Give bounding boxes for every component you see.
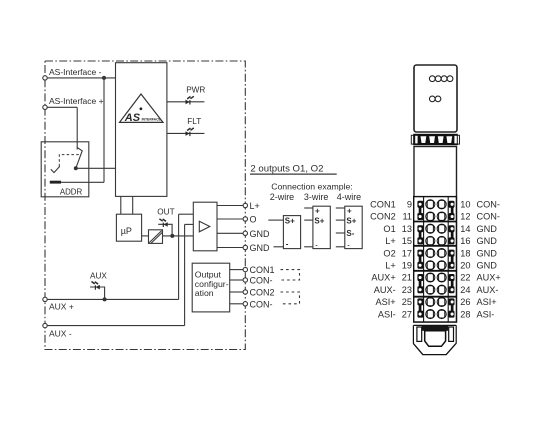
terminal row 27/28 [417,310,454,319]
wire AUX+ horizontal [45,298,179,300]
svg-text:16: 16 [460,236,470,246]
wire switch to AS-i chip [76,167,116,169]
svg-text:ASI+: ASI+ [477,297,497,307]
sensor box 3-wire [313,206,330,248]
wire OUT led tap [158,224,172,236]
svg-text:ation: ation [195,288,214,298]
svg-text:AUX -: AUX - [49,329,72,339]
LED OUT [159,218,168,227]
isolator box (diagonal) [149,230,163,244]
wire ADDR jumper to junction (horizontal) [61,181,105,183]
svg-text:AUX+: AUX+ [477,273,501,283]
wire AUX- vertical [184,224,186,325]
wire isolator to driver [163,235,194,237]
terminal CON2 [243,290,247,294]
svg-text:18: 18 [460,248,470,258]
LED row 4 [429,76,435,82]
svg-text:ADDR: ADDR [60,187,83,196]
svg-text:22: 22 [460,273,470,283]
svg-text:CON-: CON- [477,212,500,222]
node AUX led junction [103,297,107,301]
terminal GND 1 [243,231,247,235]
pin labels left column [370,200,412,320]
wire PWR [167,101,205,103]
svg-text:21: 21 [402,273,412,283]
svg-text:27: 27 [402,309,412,319]
wire driver O [217,218,243,220]
terminal CON- b [243,302,247,306]
svg-text:Connection example:: Connection example: [271,182,353,192]
wire config CON- a [230,279,243,281]
svg-text:11: 11 [402,212,412,222]
svg-text:PWR: PWR [186,85,205,94]
wire 4-wire S+ stub [336,219,345,221]
foot left tab [417,327,422,341]
svg-text:O: O [250,215,257,225]
foot rail clip cavity [425,331,446,347]
svg-text:AUX+: AUX+ [371,273,395,283]
svg-text:17: 17 [402,248,412,258]
svg-text:15: 15 [402,236,412,246]
terminal row 11/12 [417,212,454,221]
svg-text:-: - [315,242,317,249]
terminal AUX + [43,297,47,301]
wire chip to uP right [132,196,134,214]
svg-text:2 outputs O1, O2: 2 outputs O1, O2 [250,164,323,175]
node OUT junction [170,234,174,238]
AS-Interface logo triangle [120,94,164,122]
wire config CON- b [230,303,243,305]
svg-text:19: 19 [402,261,412,271]
foot outer silhouette [413,344,456,355]
svg-text:GND: GND [250,243,271,253]
wire AUX+ vertical [178,214,180,299]
svg-text:AUX: AUX [90,271,107,280]
terminal O [243,217,247,221]
svg-text:ASI-: ASI- [378,309,396,319]
svg-text:CON2: CON2 [250,288,275,298]
connector band body [413,134,458,145]
terminal row 17/18 [417,249,454,258]
terminal AS-Interface + [43,105,47,109]
svg-text:23: 23 [402,285,412,295]
wire AS-Interface + horizontal [45,106,77,108]
svg-text:AS-Interface -: AS-Interface - [49,67,102,77]
LED FLT [186,127,195,136]
terminal tab links [419,208,422,214]
ADDR jumper bar [50,181,61,184]
dashed load CON1 [281,270,300,280]
group dividers [414,221,457,223]
pin labels right column [460,200,500,320]
sensor box 4-wire [345,206,362,248]
dashed load CON2 [281,292,300,304]
svg-text:L+: L+ [385,261,395,271]
svg-text:20: 20 [460,261,470,271]
wire 4-wire S- stub [336,232,345,234]
terminal L+ [243,203,247,207]
wire O to 2-wire box [268,219,283,221]
terminal row 13/14 [417,224,454,233]
svg-text:S+: S+ [314,217,324,226]
wire chip to uP left [120,196,122,214]
driver triangle [199,221,210,232]
svg-text:ASI-: ASI- [477,309,495,319]
svg-text:S+: S+ [285,216,295,225]
wire AUX led tap [90,287,105,299]
ADDR box [41,142,89,197]
svg-text:FLT: FLT [187,117,201,126]
LED PWR [186,96,195,105]
output driver box [193,202,217,251]
svg-text:OUT: OUT [157,207,174,216]
output configuration box [192,263,230,312]
wire 4-wire minus stub [336,246,345,248]
svg-text:GND: GND [477,224,498,234]
LED AUX [91,281,100,290]
svg-text:CON-: CON- [477,200,500,210]
wire AUX+ stub to driver [179,213,194,215]
svg-text:CON1: CON1 [250,265,275,275]
wire 4-wire plus stub [336,207,345,209]
svg-text:CON2: CON2 [370,212,396,222]
svg-text:AS-Interface +: AS-Interface + [49,96,104,106]
svg-text:3-wire: 3-wire [304,192,329,202]
wire config CON2 [230,291,243,293]
svg-text:O1: O1 [383,224,395,234]
svg-text:14: 14 [460,224,470,234]
svg-text:+: + [315,206,320,215]
svg-text:GND: GND [477,236,498,246]
svg-text:S-: S- [346,229,354,238]
svg-text:-: - [286,239,289,248]
wire driver GND 2 [217,247,243,249]
terminal row 15/16 [417,236,454,245]
svg-text:26: 26 [460,297,470,307]
svg-text:-: - [347,242,349,249]
foot outer sides [412,325,414,343]
sensor box 2-wire [283,216,300,249]
svg-text:10: 10 [460,200,470,210]
terminal row 25/26 [417,297,454,306]
svg-text:µP: µP [121,226,132,236]
svg-text:+: + [347,206,352,215]
svg-text:13: 13 [402,224,412,234]
svg-text:GND: GND [477,261,498,271]
switch arm [76,148,82,169]
wire FLT [167,132,205,134]
svg-text:4-wire: 4-wire [337,192,362,202]
svg-text:24: 24 [460,285,470,295]
module boundary (dash-dot box) [45,61,245,350]
svg-text:CON-: CON- [250,276,273,286]
wire 3-wire S+ stub [304,219,313,221]
terminal row 19/20 [417,261,454,270]
AS-i chip box U1 [116,63,167,197]
terminal block frame [414,197,457,322]
foot right tab [449,327,454,341]
svg-text:S+: S+ [346,217,356,226]
svg-text:O2: O2 [383,248,395,258]
switch actuation dashed line [59,155,79,167]
svg-text:INTERFACE: INTERFACE [142,117,162,121]
wire uP to isolator [142,235,149,237]
svg-text:GND: GND [477,248,498,258]
wire AS-Interface - horizontal [45,77,116,79]
node switch junction [74,166,78,170]
svg-text:12: 12 [460,212,470,222]
wire config CON1 [230,269,243,271]
wire junction to ADDR jumper (vertical) [103,78,105,182]
switch fixed contact [51,166,60,172]
svg-text:25: 25 [402,297,412,307]
logo dot [140,107,143,110]
svg-text:AUX +: AUX + [49,302,74,312]
svg-text:GND: GND [250,229,271,239]
node junction on AS-Interface - [102,76,106,80]
microprocessor uP box [116,214,141,241]
wire driver L+ [217,205,243,207]
module foot collar [413,324,456,326]
wire AS-Interface + vertical into switch [76,107,78,149]
module housing top [414,65,457,132]
heading underline [250,173,337,175]
terminal row 23/24 [417,285,454,294]
svg-text:2-wire: 2-wire [270,192,295,202]
foot clip band [422,326,448,331]
svg-text:CON1: CON1 [370,200,396,210]
wire AUX- stub to driver [185,223,194,225]
svg-text:9: 9 [407,200,412,210]
wire GND to 2-wire box [274,246,284,248]
svg-text:L+: L+ [385,236,395,246]
terminal GND 2 [243,245,247,249]
svg-text:AUX-: AUX- [477,285,499,295]
terminal CON1 [243,267,247,271]
LED row 2 [429,96,435,102]
terminal row 9/10 [417,200,454,209]
svg-text:AUX-: AUX- [374,285,396,295]
wire 3-wire minus stub [304,246,313,248]
module body [414,147,457,323]
wire AUX- horizontal [45,325,185,327]
terminal row 21/22 [417,273,454,282]
svg-text:AS: AS [124,112,141,124]
svg-text:28: 28 [460,309,470,319]
svg-text:ASI+: ASI+ [376,297,396,307]
wire driver GND 1 [217,232,243,234]
svg-text:L+: L+ [250,201,260,211]
terminal CON- a [243,278,247,282]
wire 3-wire plus stub [304,207,313,209]
terminal AUX - [43,323,47,327]
terminal AS-Interface - [43,76,47,80]
connector band side lug left [411,135,414,144]
svg-text:CON-: CON- [250,299,273,309]
